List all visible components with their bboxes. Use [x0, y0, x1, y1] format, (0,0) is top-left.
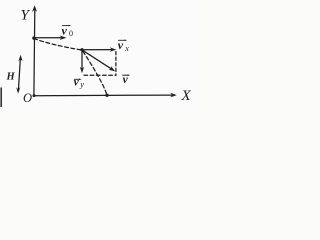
svg-text:O: O: [23, 91, 32, 105]
svg-text:H: H: [6, 72, 16, 83]
vector v (resultant): [83, 50, 112, 69]
vy arrowhead: [80, 67, 84, 74]
svg-text:v: v: [74, 76, 80, 88]
v0 arrowhead: [60, 35, 67, 40]
H bottom arrowhead: [16, 87, 20, 94]
vector v0: [34, 37, 63, 39]
left edge scan artifact: [0, 88, 2, 108]
svg-text:X: X: [181, 88, 192, 104]
Y axis arrowhead: [32, 5, 37, 12]
label vy: [74, 76, 85, 89]
launch point dot: [32, 36, 35, 39]
origin dot: [33, 94, 36, 97]
H double arrow shaft: [18, 58, 20, 91]
vector origin point dot: [80, 48, 83, 51]
dashed rectangle right side: [115, 52, 117, 76]
label vx: [118, 38, 130, 53]
vector vy: [81, 51, 83, 70]
label v0: [62, 23, 74, 38]
vx arrowhead: [110, 47, 117, 52]
svg-text:0: 0: [69, 29, 73, 38]
svg-text:y: y: [79, 79, 84, 89]
Y axis: [33, 10, 36, 96]
H top arrowhead: [18, 55, 22, 62]
X axis arrowhead: [170, 93, 177, 98]
label v: [122, 74, 130, 86]
X axis: [34, 94, 173, 97]
v arrowhead: [109, 66, 116, 71]
vector vx: [83, 49, 113, 51]
trajectory (dashed): [34, 39, 107, 96]
landing point dot: [105, 94, 108, 97]
dashed rectangle bottom side: [84, 74, 116, 76]
svg-text:x: x: [124, 44, 129, 53]
